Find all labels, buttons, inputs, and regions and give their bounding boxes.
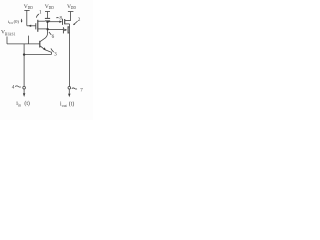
svg-text:in: in <box>18 104 21 108</box>
svg-text:DD: DD <box>28 6 34 10</box>
svg-text:4: 4 <box>12 85 15 91</box>
svg-text:1: 1 <box>39 10 42 16</box>
svg-text:out: out <box>62 104 68 108</box>
svg-text:2: 2 <box>78 17 81 23</box>
svg-text:6: 6 <box>52 34 55 40</box>
svg-text:3: 3 <box>54 51 57 57</box>
svg-text:(t): (t) <box>69 100 75 107</box>
svg-text:(0): (0) <box>14 19 20 24</box>
svg-text:(t): (t) <box>24 100 30 107</box>
svg-text:7: 7 <box>80 88 83 93</box>
svg-text:BIAS1: BIAS1 <box>5 33 16 37</box>
svg-text:DD: DD <box>71 6 77 10</box>
svg-text:DD: DD <box>49 6 55 10</box>
